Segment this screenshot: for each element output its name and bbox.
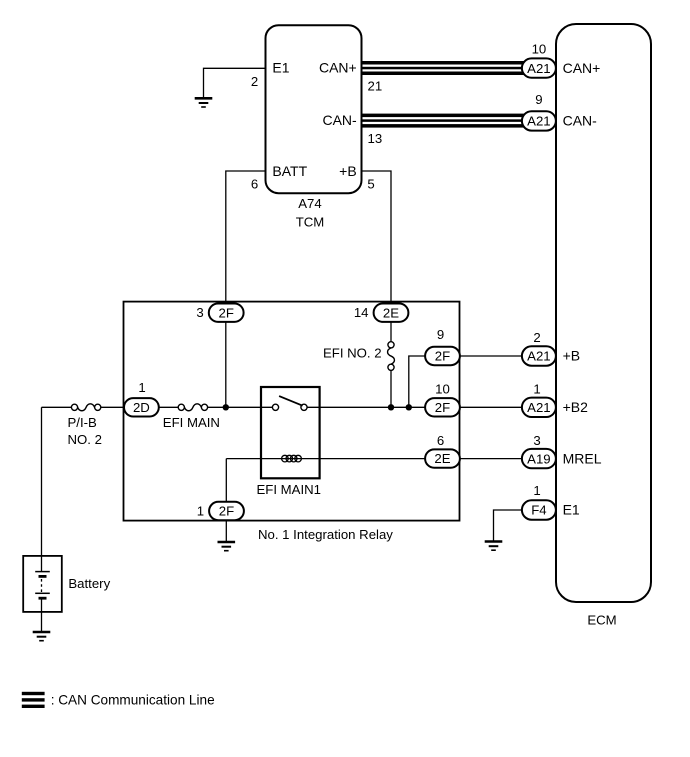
- svg-text:10: 10: [435, 381, 450, 396]
- svg-text:E1: E1: [563, 502, 580, 518]
- pin number 10: [435, 381, 450, 396]
- pin number 9: [437, 327, 444, 342]
- connector 2E pin 6: [425, 449, 460, 467]
- svg-text:6: 6: [251, 177, 258, 192]
- svg-text:10: 10: [532, 42, 547, 57]
- svg-text:CAN+: CAN+: [563, 60, 601, 76]
- svg-text:: CAN Communication Line: : CAN Communication Line: [51, 693, 215, 708]
- wire E1 from TCM to ground: [204, 68, 266, 98]
- svg-text:21: 21: [368, 78, 383, 93]
- wire 2F(9) to A21 +B: [459, 355, 522, 357]
- wire coil row down to 2F(1): [225, 459, 227, 502]
- pin +B2 label (ECM): [563, 399, 589, 415]
- ground G3 (ECM F4): [485, 542, 503, 551]
- svg-text:2D: 2D: [133, 400, 150, 415]
- svg-text:2: 2: [251, 74, 258, 89]
- svg-text:CAN-: CAN-: [322, 112, 357, 128]
- pin number 9 (A21 CAN-): [535, 92, 542, 107]
- CAN- communication line (triple): [362, 114, 527, 128]
- svg-text:1: 1: [533, 381, 540, 396]
- wire F4 E1 to ground: [494, 510, 523, 542]
- svg-text:9: 9: [535, 92, 542, 107]
- svg-text:1: 1: [138, 380, 145, 395]
- svg-text:14: 14: [354, 305, 369, 320]
- TCM box A74: [266, 25, 362, 193]
- svg-text:2E: 2E: [383, 305, 399, 320]
- wire 2F(9) to node: [409, 356, 426, 407]
- ground G2 (relay 2F 1): [218, 542, 236, 551]
- svg-text:2E: 2E: [434, 451, 450, 466]
- pin number 10 (A21 CAN+): [532, 42, 547, 57]
- label P/I-B NO. 2: [68, 415, 102, 447]
- svg-text:CAN+: CAN+: [319, 60, 357, 76]
- pin 21 number: [368, 78, 383, 93]
- label EFI MAIN1: [257, 482, 321, 497]
- pin number 3: [196, 305, 203, 320]
- fuse EFI MAIN: [178, 404, 207, 411]
- label EFI MAIN: [163, 415, 220, 430]
- node junction at 2F9 column: [406, 404, 412, 410]
- ground G1 (TCM E1): [195, 98, 213, 107]
- svg-text:5: 5: [367, 177, 374, 192]
- wire TCM +B down to relay 2E(14): [362, 171, 392, 304]
- pin CAN- label (TCM): [322, 112, 357, 128]
- pin number 1 (2D): [138, 380, 145, 395]
- relay coil: [282, 455, 302, 462]
- svg-text:2F: 2F: [435, 349, 450, 364]
- wire EFI NO.2 fuse to main node: [390, 370, 392, 407]
- pin +B label (ECM): [563, 348, 581, 364]
- pin number 1 (A21 +B2): [533, 381, 540, 396]
- svg-text:EFI MAIN: EFI MAIN: [163, 415, 220, 430]
- svg-text:A19: A19: [527, 451, 550, 466]
- svg-text:EFI NO. 2: EFI NO. 2: [323, 346, 382, 361]
- svg-text:ECM: ECM: [587, 613, 616, 628]
- label EFI NO. 2: [323, 346, 382, 361]
- pin MREL label (ECM): [563, 450, 602, 466]
- svg-text:Battery: Battery: [68, 576, 110, 591]
- pin CAN- label (ECM): [563, 113, 598, 129]
- connector A21 +B2: [522, 398, 556, 417]
- connector 2F pin 1 (bottom): [209, 502, 244, 520]
- pin E1 label: [272, 60, 289, 76]
- label ECM: [587, 613, 616, 628]
- svg-text:CAN-: CAN-: [563, 113, 598, 129]
- svg-text:1: 1: [533, 483, 540, 498]
- wire coil row to 2E(6): [226, 458, 426, 460]
- wire switch to 2F(10): [307, 406, 426, 408]
- wire 2F(1) to ground: [225, 521, 227, 542]
- svg-text:9: 9: [437, 327, 444, 342]
- pin number 14: [354, 305, 369, 320]
- svg-text:A74: A74: [298, 196, 321, 211]
- svg-text:2: 2: [533, 330, 540, 345]
- wire battery to ground: [41, 598, 43, 632]
- connector 2F pin 9: [425, 347, 460, 365]
- label A74: [298, 196, 321, 211]
- wire 2F(3) down to main node: [225, 322, 227, 407]
- svg-text:A21: A21: [527, 349, 550, 364]
- svg-text:6: 6: [437, 433, 444, 448]
- connector A21 +B: [522, 346, 556, 365]
- svg-text:+B: +B: [563, 348, 581, 364]
- ECM box: [556, 24, 651, 602]
- battery box: [23, 556, 62, 612]
- connector A21 CAN-: [522, 111, 556, 130]
- ground G4 (battery): [33, 632, 51, 641]
- pin number 1 (bottom 2F): [197, 503, 204, 518]
- battery cell plates: [35, 572, 50, 599]
- svg-text:3: 3: [533, 433, 540, 448]
- pin 5 number: [367, 177, 374, 192]
- wire 2E(6) to A19 MREL: [459, 458, 522, 460]
- svg-text:E1: E1: [272, 60, 289, 76]
- svg-text:EFI MAIN1: EFI MAIN1: [257, 482, 321, 497]
- svg-text:NO. 2: NO. 2: [68, 432, 102, 447]
- connector A19 MREL: [522, 449, 556, 468]
- wire 2E(14) down through EFI NO.2 fuse to main node: [390, 322, 392, 342]
- svg-text:2F: 2F: [435, 400, 450, 415]
- relay switch contacts: [272, 404, 307, 410]
- connector 2F pin 10: [425, 398, 460, 416]
- svg-text:No. 1 Integration Relay: No. 1 Integration Relay: [258, 527, 393, 542]
- svg-text:A21: A21: [527, 400, 550, 415]
- fuse EFI NO.2: [388, 342, 395, 371]
- pin number 2 (A21 +B): [533, 330, 540, 345]
- svg-text:+B: +B: [339, 163, 357, 179]
- svg-text:A21: A21: [527, 61, 550, 76]
- relay box No.1 Integration Relay: [124, 302, 460, 521]
- svg-text:BATT: BATT: [272, 163, 307, 179]
- main horizontal wire battery to relay: [42, 406, 72, 408]
- svg-text:MREL: MREL: [563, 450, 602, 466]
- connector F4 E1: [522, 500, 556, 519]
- connector 2E pin 14: [374, 304, 409, 322]
- svg-text:2F: 2F: [219, 305, 234, 320]
- pin number 1 (F4): [533, 483, 540, 498]
- legend text CAN Communication Line: [51, 693, 215, 708]
- svg-text:F4: F4: [531, 503, 546, 518]
- svg-text:TCM: TCM: [296, 215, 325, 230]
- svg-text:1: 1: [197, 503, 204, 518]
- pin BATT label: [272, 163, 307, 179]
- svg-text:13: 13: [368, 131, 383, 146]
- main horizontal wire through relay: [159, 406, 179, 408]
- wire TCM BATT down to relay 2F(3): [226, 171, 266, 304]
- svg-text:P/I-B: P/I-B: [68, 415, 98, 430]
- label No. 1 Integration Relay: [258, 527, 393, 542]
- wire 2F(10) to A21 +B2: [459, 406, 522, 408]
- legend CAN line symbol: [22, 692, 45, 708]
- fuse P/I-B NO.2: [71, 404, 100, 411]
- wire fuse to 2D: [101, 406, 141, 408]
- svg-text:A21: A21: [527, 114, 550, 129]
- pin 13 number: [368, 131, 383, 146]
- relay EFI MAIN1 inner box: [261, 387, 320, 478]
- wire EFI MAIN fuse to switch: [208, 406, 273, 408]
- pin E1 label (ECM): [563, 502, 580, 518]
- pin CAN+ label (ECM): [563, 60, 601, 76]
- label TCM: [296, 215, 325, 230]
- connector 2D pin 1: [124, 398, 159, 416]
- pin CAN+ label (TCM): [319, 60, 357, 76]
- pin 2 number: [251, 74, 258, 89]
- connector A21 CAN+: [522, 58, 556, 77]
- wire battery riser: [41, 407, 43, 571]
- svg-text:2F: 2F: [219, 504, 234, 519]
- CAN+ communication line (triple): [362, 61, 527, 75]
- pin 6 number: [251, 177, 258, 192]
- pin number 6: [437, 433, 444, 448]
- node junction at 2E14 column: [388, 404, 394, 410]
- pin number 3 (A19): [533, 433, 540, 448]
- svg-text:+B2: +B2: [563, 399, 589, 415]
- node junction at 2F3 column: [223, 404, 229, 410]
- svg-text:3: 3: [196, 305, 203, 320]
- relay switch blade: [279, 396, 303, 406]
- pin +B label (TCM): [339, 163, 357, 179]
- connector 2F pin 3: [209, 304, 244, 322]
- label Battery: [68, 576, 110, 591]
